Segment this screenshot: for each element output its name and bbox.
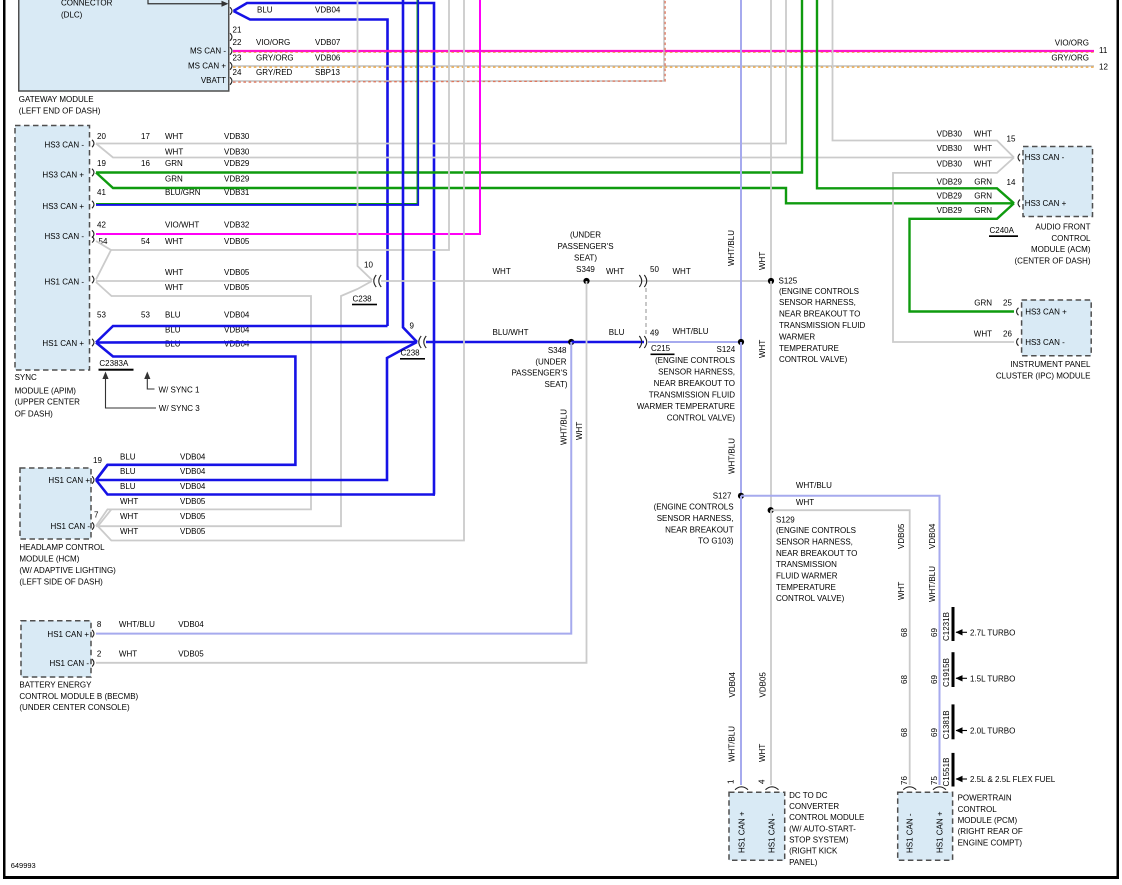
gateway pin 21 bracket bbox=[230, 33, 232, 41]
splice S125 bbox=[768, 278, 774, 284]
svg-text:WHT/BLU: WHT/BLU bbox=[119, 620, 155, 629]
svg-text:CONVERTER: CONVERTER bbox=[789, 802, 839, 811]
svg-text:WHT: WHT bbox=[897, 582, 906, 600]
SYNC pin 54 bracket bbox=[92, 237, 94, 243]
svg-text:VIO/ORG: VIO/ORG bbox=[1055, 38, 1089, 47]
wire GRN VDB29 from top to ACM bbox=[817, 0, 1014, 203]
splice S127 bbox=[738, 493, 744, 499]
svg-text:WHT: WHT bbox=[974, 330, 992, 339]
gateway pin 23 bracket bbox=[230, 62, 232, 70]
wire WHT VDB05 line A steep diagonal bbox=[96, 250, 111, 280]
svg-text:(ENGINE CONTROLS: (ENGINE CONTROLS bbox=[776, 526, 856, 535]
svg-text:HS3 CAN -: HS3 CAN - bbox=[44, 232, 84, 241]
gateway pin 24 bracket bbox=[230, 77, 232, 85]
HCM pin 7 bracket bbox=[92, 522, 94, 530]
gateway pin BLU bracket bbox=[230, 7, 232, 15]
svg-text:S127: S127 bbox=[713, 491, 732, 500]
svg-text:C1551B: C1551B bbox=[942, 758, 951, 787]
svg-text:BLU: BLU bbox=[120, 467, 136, 476]
connector C1551B bar bbox=[952, 753, 955, 787]
svg-text:25: 25 bbox=[1003, 299, 1012, 308]
wire WHT/BLU S127 to PCM pin 75 bbox=[741, 496, 940, 785]
svg-text:49: 49 bbox=[650, 329, 659, 338]
svg-text:(RIGHT REAR OF: (RIGHT REAR OF bbox=[958, 827, 1023, 836]
SYNC pin HS1 CAN - bracket bbox=[92, 276, 94, 284]
svg-text:VDB29: VDB29 bbox=[224, 159, 250, 168]
svg-text:BATTERY ENERGY: BATTERY ENERGY bbox=[19, 681, 92, 690]
svg-text:TRANSMISSION FLUID: TRANSMISSION FLUID bbox=[649, 391, 735, 400]
svg-text:WARMER: WARMER bbox=[779, 332, 815, 341]
svg-text:CONTROL MODULE B (BECMB): CONTROL MODULE B (BECMB) bbox=[19, 692, 138, 701]
svg-text:2: 2 bbox=[97, 649, 102, 658]
svg-text:S124: S124 bbox=[717, 345, 736, 354]
svg-text:(LEFT END OF DASH): (LEFT END OF DASH) bbox=[19, 107, 101, 116]
svg-text:WHT: WHT bbox=[165, 283, 183, 292]
svg-text:2.7L TURBO: 2.7L TURBO bbox=[970, 629, 1015, 638]
svg-text:STOP SYSTEM): STOP SYSTEM) bbox=[789, 836, 849, 845]
wire WHT S129 to DC-DC pin 4 bbox=[770, 510, 772, 785]
svg-text:20: 20 bbox=[97, 132, 106, 141]
svg-text:69: 69 bbox=[930, 728, 939, 737]
svg-text:(CENTER OF DASH): (CENTER OF DASH) bbox=[1015, 257, 1091, 266]
svg-text:VIO/ORG: VIO/ORG bbox=[256, 38, 290, 47]
svg-text:WHT: WHT bbox=[758, 340, 767, 358]
svg-text:(UNDER CENTER CONSOLE): (UNDER CENTER CONSOLE) bbox=[19, 703, 130, 712]
svg-text:(RIGHT KICK: (RIGHT KICK bbox=[789, 847, 838, 856]
svg-text:WHT: WHT bbox=[974, 144, 992, 153]
audio front control module (ACM) box bbox=[1023, 147, 1093, 217]
connector C1381B bar bbox=[952, 704, 955, 739]
wire GRN VDB29 sync line1 bbox=[96, 0, 802, 173]
svg-text:WHT: WHT bbox=[575, 422, 584, 440]
svg-text:19: 19 bbox=[97, 159, 106, 168]
svg-text:WHT: WHT bbox=[796, 498, 814, 507]
svg-text:TO G103): TO G103) bbox=[698, 537, 734, 546]
svg-text:DC TO DC: DC TO DC bbox=[789, 791, 828, 800]
svg-text:WHT/BLU: WHT/BLU bbox=[673, 327, 709, 336]
svg-text:HS1 CAN +: HS1 CAN + bbox=[42, 339, 84, 348]
svg-text:SEAT): SEAT) bbox=[574, 254, 597, 263]
svg-text:CONTROL VALVE): CONTROL VALVE) bbox=[779, 355, 848, 364]
SYNC pin 42 bracket bbox=[92, 230, 94, 238]
battery energy control module B (BECMB) box bbox=[21, 621, 91, 677]
svg-text:1: 1 bbox=[727, 779, 736, 784]
svg-text:GRN: GRN bbox=[165, 159, 183, 168]
svg-text:HS3 CAN +: HS3 CAN + bbox=[42, 202, 84, 211]
svg-text:WARMER TEMPERATURE: WARMER TEMPERATURE bbox=[637, 402, 735, 411]
instrument panel cluster (IPC) box bbox=[1022, 300, 1092, 356]
svg-text:HS3 CAN -: HS3 CAN - bbox=[1025, 153, 1065, 162]
svg-text:BLU: BLU bbox=[257, 6, 273, 15]
wire BLU/GRN VDB31 bbox=[96, 0, 418, 205]
SYNC module (APIM) box bbox=[15, 126, 90, 371]
svg-text:PASSENGER'S: PASSENGER'S bbox=[511, 369, 567, 378]
svg-text:11: 11 bbox=[1099, 46, 1108, 55]
svg-text:OF DASH): OF DASH) bbox=[15, 410, 54, 419]
svg-text:GRY/ORG: GRY/ORG bbox=[1051, 54, 1089, 63]
svg-text:WHT: WHT bbox=[758, 252, 767, 270]
wire BLU VDB04 hcm line3 diag bbox=[96, 480, 435, 495]
svg-text:1.5L TURBO: 1.5L TURBO bbox=[970, 675, 1015, 684]
svg-text:NEAR BREAKOUT: NEAR BREAKOUT bbox=[665, 525, 734, 534]
svg-text:HS1 CAN -: HS1 CAN - bbox=[44, 278, 84, 287]
wire WHT VDB05 line A (pin 54) bbox=[96, 0, 449, 250]
wire BLU S348 to C215-49 bbox=[571, 341, 644, 343]
wire WHT VDB05 hcm line3 bbox=[98, 0, 464, 541]
svg-text:GRN: GRN bbox=[974, 299, 992, 308]
SYNC pin HS1 CAN + bracket bbox=[92, 339, 94, 347]
svg-text:WHT: WHT bbox=[165, 148, 183, 157]
splice S349 bbox=[583, 278, 589, 284]
wire VIO/WHT VDB32 bbox=[96, 0, 480, 234]
wire WHT/BLU C215-49 to S124 bbox=[648, 341, 741, 343]
svg-text:VDB05: VDB05 bbox=[180, 497, 206, 506]
svg-text:19: 19 bbox=[93, 456, 102, 465]
svg-text:VDB29: VDB29 bbox=[224, 175, 250, 184]
IPC pin 26 bracket bbox=[1017, 338, 1019, 346]
svg-text:TEMPERATURE: TEMPERATURE bbox=[779, 344, 839, 353]
wire WHT/BLU VDB04 becmb to S348 bbox=[96, 342, 571, 634]
svg-text:VDB04: VDB04 bbox=[180, 467, 206, 476]
DC-DC pin 1 bracket bbox=[735, 787, 748, 790]
arrow C1231B bbox=[956, 631, 967, 633]
svg-text:INSTRUMENT PANEL: INSTRUMENT PANEL bbox=[1010, 360, 1091, 369]
svg-text:C1381B: C1381B bbox=[942, 710, 951, 739]
svg-text:WHT/BLU: WHT/BLU bbox=[728, 726, 737, 762]
svg-text:VDB05: VDB05 bbox=[897, 523, 906, 549]
svg-text:WHT: WHT bbox=[165, 237, 183, 246]
svg-text:WHT: WHT bbox=[120, 527, 138, 536]
svg-text:CONTROL: CONTROL bbox=[1051, 234, 1091, 243]
ACM pin 14 bracket bbox=[1018, 200, 1020, 208]
wire VIO/ORG VDB07 bbox=[233, 50, 1094, 52]
svg-text:HS1 CAN -: HS1 CAN - bbox=[906, 813, 915, 853]
svg-text:VDB04: VDB04 bbox=[178, 620, 204, 629]
svg-text:MS CAN +: MS CAN + bbox=[188, 62, 226, 71]
wire WHT VDB30 sync line2 to ACM bbox=[96, 144, 1014, 158]
wire WHT VDB05 line B to C238 bbox=[96, 280, 372, 282]
svg-text:(DLC): (DLC) bbox=[61, 11, 83, 20]
arrow C1915B bbox=[956, 677, 967, 679]
SYNC pin 20 bracket bbox=[92, 140, 94, 148]
svg-text:S348: S348 bbox=[548, 346, 567, 355]
svg-text:WHT: WHT bbox=[119, 649, 137, 658]
connector C1915B bar bbox=[952, 652, 955, 687]
inline connector C215 pin 49 bbox=[639, 336, 646, 348]
svg-text:HS3 CAN +: HS3 CAN + bbox=[1025, 199, 1067, 208]
svg-text:24: 24 bbox=[233, 68, 242, 77]
svg-text:HS3 CAN +: HS3 CAN + bbox=[42, 171, 84, 180]
wire WHT VDB05 via C238-10 branch bbox=[96, 281, 372, 526]
svg-text:41: 41 bbox=[97, 188, 106, 197]
wire BLU/WHT C238-9 to S348 bbox=[426, 341, 571, 343]
svg-text:S129: S129 bbox=[776, 515, 795, 524]
wire WHT/BLU vertical top to S124 bbox=[740, 0, 742, 342]
DLC internal arrow wire bbox=[148, 0, 223, 4]
svg-text:WHT: WHT bbox=[165, 268, 183, 277]
C215 underline bbox=[651, 354, 675, 356]
svg-text:VDB30: VDB30 bbox=[937, 144, 963, 153]
svg-text:WHT: WHT bbox=[120, 512, 138, 521]
svg-text:53: 53 bbox=[97, 311, 106, 320]
svg-text:HS1 CAN -: HS1 CAN - bbox=[49, 659, 89, 668]
svg-text:VDB05: VDB05 bbox=[180, 512, 206, 521]
svg-text:76: 76 bbox=[900, 776, 909, 785]
ACM pin 15 bracket bbox=[1018, 154, 1020, 162]
svg-text:(ENGINE CONTROLS: (ENGINE CONTROLS bbox=[779, 287, 859, 296]
svg-text:VDB04: VDB04 bbox=[224, 339, 250, 348]
wire BLU VDB04 gateway fork lower bbox=[234, 11, 388, 326]
svg-text:NEAR BREAKOUT TO: NEAR BREAKOUT TO bbox=[654, 379, 735, 388]
svg-text:TRANSMISSION FLUID: TRANSMISSION FLUID bbox=[779, 321, 865, 330]
svg-text:GRY/ORG: GRY/ORG bbox=[256, 54, 294, 63]
svg-text:WHT/BLU: WHT/BLU bbox=[796, 481, 832, 490]
svg-text:2.5L & 2.5L FLEX FUEL: 2.5L & 2.5L FLEX FUEL bbox=[970, 775, 1056, 784]
svg-text:VDB05: VDB05 bbox=[178, 649, 204, 658]
svg-text:42: 42 bbox=[97, 221, 106, 230]
svg-text:(W/ ADAPTIVE LIGHTING): (W/ ADAPTIVE LIGHTING) bbox=[19, 566, 116, 575]
svg-text:PANEL): PANEL) bbox=[789, 858, 818, 867]
svg-text:S125: S125 bbox=[779, 277, 798, 286]
C240A underline bbox=[989, 235, 1018, 237]
svg-text:10: 10 bbox=[364, 261, 373, 270]
svg-text:POWERTRAIN: POWERTRAIN bbox=[958, 794, 1012, 803]
PCM pin 75 bracket bbox=[933, 787, 946, 790]
svg-text:ENGINE COMPT): ENGINE COMPT) bbox=[958, 839, 1023, 848]
arrow C1551B bbox=[956, 778, 967, 780]
wire BLU VDB04 hcm line1 bbox=[96, 465, 108, 480]
wire WHT VDB30 sync line1 bbox=[96, 0, 786, 144]
svg-text:(W/ AUTO-START-: (W/ AUTO-START- bbox=[789, 824, 856, 833]
svg-text:HS1 CAN +: HS1 CAN + bbox=[47, 630, 89, 639]
svg-text:WHT: WHT bbox=[606, 267, 624, 276]
wire BLU C238-9 branch down to HCM bbox=[96, 342, 417, 480]
svg-text:C1231B: C1231B bbox=[942, 612, 951, 641]
wire GRY/RED SBP13 (gray base) bbox=[233, 0, 664, 81]
svg-text:VDB04: VDB04 bbox=[180, 453, 206, 462]
C215 connector dashed link bbox=[645, 288, 647, 336]
svg-text:MS CAN -: MS CAN - bbox=[190, 47, 226, 56]
svg-text:(ENGINE CONTROLS: (ENGINE CONTROLS bbox=[655, 356, 735, 365]
svg-text:VDB07: VDB07 bbox=[315, 38, 341, 47]
svg-text:C215: C215 bbox=[651, 344, 671, 353]
page border left bbox=[3, 0, 6, 878]
wire WHT S129 to PCM pin 76 bbox=[771, 510, 910, 785]
svg-text:BLU/GRN: BLU/GRN bbox=[165, 188, 201, 197]
wire WHT VDB05 hcm line1 diag bbox=[98, 509, 111, 526]
svg-text:649993: 649993 bbox=[11, 861, 36, 870]
svg-text:SYNC: SYNC bbox=[15, 373, 37, 382]
svg-text:VDB06: VDB06 bbox=[315, 54, 341, 63]
svg-text:4: 4 bbox=[758, 779, 767, 784]
wire WHT vertical from top to C238-10 bbox=[358, 0, 373, 280]
HCM pin 19 bracket bbox=[92, 476, 94, 484]
svg-text:HS1 CAN +: HS1 CAN + bbox=[48, 476, 90, 485]
wire WHT trunk C238-10 to S125 bbox=[381, 280, 771, 282]
svg-text:BLU: BLU bbox=[120, 453, 136, 462]
svg-text:53: 53 bbox=[141, 311, 150, 320]
svg-text:VDB29: VDB29 bbox=[937, 206, 963, 215]
svg-text:TRANSMISSION: TRANSMISSION bbox=[776, 560, 837, 569]
inline connector C238 pin 9 bbox=[419, 336, 426, 348]
svg-text:23: 23 bbox=[233, 54, 242, 63]
svg-text:GRN: GRN bbox=[974, 206, 992, 215]
svg-text:C240A: C240A bbox=[990, 226, 1015, 235]
svg-text:CONNECTOR: CONNECTOR bbox=[61, 0, 113, 8]
powertrain control module (PCM) box bbox=[898, 792, 953, 860]
svg-text:NEAR BREAKOUT TO: NEAR BREAKOUT TO bbox=[776, 549, 857, 558]
svg-text:68: 68 bbox=[900, 728, 909, 737]
svg-text:NEAR BREAKOUT TO: NEAR BREAKOUT TO bbox=[779, 310, 860, 319]
C238b underline bbox=[400, 358, 425, 360]
svg-text:VDB04: VDB04 bbox=[928, 523, 937, 549]
svg-text:VDB29: VDB29 bbox=[937, 191, 963, 200]
svg-text:WHT: WHT bbox=[758, 744, 767, 762]
svg-text:VDB32: VDB32 bbox=[224, 221, 250, 230]
svg-text:VDB29: VDB29 bbox=[937, 177, 963, 186]
svg-text:SENSOR HARNESS,: SENSOR HARNESS, bbox=[779, 298, 856, 307]
wire WHT VDB05 becmb to S349 bbox=[96, 281, 587, 663]
wire WHT VDB30 from top to ACM bbox=[833, 0, 1015, 158]
svg-text:54: 54 bbox=[141, 237, 150, 246]
svg-text:BLU: BLU bbox=[165, 311, 181, 320]
svg-text:12: 12 bbox=[1099, 62, 1108, 71]
svg-text:WHT: WHT bbox=[493, 267, 511, 276]
svg-text:GATEWAY MODULE: GATEWAY MODULE bbox=[19, 95, 94, 104]
IPC pin 25 bracket bbox=[1017, 308, 1019, 316]
svg-text:W/ SYNC 3: W/ SYNC 3 bbox=[159, 404, 200, 413]
arrow C1381B bbox=[956, 730, 967, 732]
svg-text:14: 14 bbox=[1007, 178, 1016, 187]
svg-text:GRY/RED: GRY/RED bbox=[256, 68, 293, 77]
wire BLU VDB04 sync line1 bbox=[96, 326, 388, 343]
svg-text:VDB30: VDB30 bbox=[224, 148, 250, 157]
svg-text:75: 75 bbox=[930, 776, 939, 785]
svg-text:16: 16 bbox=[141, 159, 150, 168]
svg-text:VDB05: VDB05 bbox=[180, 527, 206, 536]
svg-text:SENSOR HARNESS,: SENSOR HARNESS, bbox=[658, 368, 735, 377]
svg-text:HEADLAMP CONTROL: HEADLAMP CONTROL bbox=[19, 543, 105, 552]
W/ SYNC 1 arrow bbox=[147, 375, 154, 389]
wire WHT/BLU S124 to S127 bbox=[740, 342, 742, 496]
svg-text:VDB05: VDB05 bbox=[224, 283, 250, 292]
svg-text:HS1 CAN +: HS1 CAN + bbox=[936, 811, 945, 853]
svg-text:CONTROL MODULE: CONTROL MODULE bbox=[789, 813, 864, 822]
svg-text:CONTROL: CONTROL bbox=[958, 805, 998, 814]
svg-text:VIO/WHT: VIO/WHT bbox=[165, 221, 199, 230]
splice S124 bbox=[738, 339, 744, 345]
splice S129 bbox=[768, 507, 774, 513]
svg-text:(UNDER: (UNDER bbox=[535, 358, 566, 367]
svg-text:(LEFT SIDE OF DASH): (LEFT SIDE OF DASH) bbox=[19, 578, 103, 587]
svg-text:WHT: WHT bbox=[165, 132, 183, 141]
svg-text:W/ SYNC 1: W/ SYNC 1 bbox=[159, 385, 200, 394]
svg-text:WHT/BLU: WHT/BLU bbox=[727, 230, 736, 266]
svg-text:WHT/BLU: WHT/BLU bbox=[728, 438, 737, 474]
svg-text:22: 22 bbox=[233, 38, 242, 47]
wire WHT vertical top to S125 bbox=[770, 0, 772, 281]
svg-text:TEMPERATURE: TEMPERATURE bbox=[776, 583, 836, 592]
inline connector C215 pin 50 bbox=[639, 275, 646, 287]
wire BLU VDB04 sync line2 to C238-9 bbox=[96, 341, 417, 344]
svg-text:26: 26 bbox=[1003, 330, 1012, 339]
svg-text:FLUID WARMER: FLUID WARMER bbox=[776, 571, 838, 580]
svg-text:MODULE (PCM): MODULE (PCM) bbox=[958, 816, 1018, 825]
svg-text:8: 8 bbox=[97, 620, 102, 629]
svg-text:HS1 CAN -: HS1 CAN - bbox=[768, 813, 777, 853]
svg-text:HS3 CAN -: HS3 CAN - bbox=[44, 141, 84, 150]
wire GRN VDB29 ACM line3 to IPC bbox=[910, 203, 1015, 311]
wire GRY/ORG VDB06 (gray base) bbox=[233, 65, 1094, 67]
svg-text:68: 68 bbox=[900, 628, 909, 637]
headlamp control module (HCM) box bbox=[20, 468, 91, 539]
PCM pin 76 bracket bbox=[903, 787, 916, 790]
svg-text:HS1 CAN +: HS1 CAN + bbox=[738, 811, 747, 853]
svg-text:AUDIO FRONT: AUDIO FRONT bbox=[1035, 223, 1090, 232]
svg-text:VDB04: VDB04 bbox=[180, 482, 206, 491]
wire WHT VDB05 line C bbox=[96, 282, 311, 526]
svg-text:VDB04: VDB04 bbox=[224, 311, 250, 320]
C238a underline bbox=[352, 304, 377, 306]
svg-text:C1915B: C1915B bbox=[942, 658, 951, 687]
svg-text:21: 21 bbox=[233, 26, 242, 35]
svg-text:PASSENGER'S: PASSENGER'S bbox=[557, 242, 613, 251]
svg-text:15: 15 bbox=[1007, 135, 1016, 144]
svg-text:MODULE (APIM): MODULE (APIM) bbox=[15, 387, 77, 396]
svg-text:C238: C238 bbox=[353, 294, 373, 303]
svg-text:69: 69 bbox=[930, 675, 939, 684]
svg-text:VDB05: VDB05 bbox=[759, 672, 768, 698]
svg-text:SENSOR HARNESS,: SENSOR HARNESS, bbox=[776, 537, 853, 546]
svg-text:WHT: WHT bbox=[120, 497, 138, 506]
svg-text:VBATT: VBATT bbox=[201, 76, 226, 85]
svg-text:7: 7 bbox=[94, 511, 99, 520]
svg-text:HS3 CAN -: HS3 CAN - bbox=[1025, 338, 1065, 347]
svg-text:BLU: BLU bbox=[120, 482, 136, 491]
page border right bbox=[1117, 0, 1120, 879]
svg-text:GRN: GRN bbox=[974, 191, 992, 200]
svg-text:CONTROL VALVE): CONTROL VALVE) bbox=[667, 414, 736, 423]
svg-text:WHT: WHT bbox=[673, 267, 691, 276]
svg-text:2.0L TURBO: 2.0L TURBO bbox=[970, 727, 1015, 736]
svg-text:S349: S349 bbox=[576, 265, 595, 274]
wire WHT VDB30 ACM line3 to IPC bbox=[893, 158, 1014, 343]
svg-text:VDB30: VDB30 bbox=[224, 132, 250, 141]
svg-text:WHT: WHT bbox=[974, 129, 992, 138]
C2383A underline bbox=[99, 369, 134, 371]
BECMB pin 8 bracket bbox=[92, 630, 94, 638]
svg-text:SEAT): SEAT) bbox=[545, 380, 568, 389]
svg-text:69: 69 bbox=[930, 628, 939, 637]
wire BLU vertical from top to C238-9 bbox=[403, 0, 417, 342]
wire BLU VDB04 sync line3 bbox=[96, 343, 295, 481]
svg-text:SENSOR HARNESS,: SENSOR HARNESS, bbox=[657, 514, 734, 523]
svg-text:C2383A: C2383A bbox=[99, 359, 129, 368]
wire WHT S125 to S129 bbox=[770, 281, 772, 510]
svg-text:WHT/BLU: WHT/BLU bbox=[560, 409, 569, 445]
svg-text:HS3 CAN +: HS3 CAN + bbox=[1025, 308, 1067, 317]
splice S348 bbox=[568, 339, 574, 345]
svg-text:VDB31: VDB31 bbox=[224, 188, 250, 197]
svg-text:BLU/WHT: BLU/WHT bbox=[493, 328, 529, 337]
svg-text:VDB30: VDB30 bbox=[937, 160, 963, 169]
svg-text:C238: C238 bbox=[401, 349, 421, 358]
svg-text:GRN: GRN bbox=[165, 175, 183, 184]
svg-text:SBP13: SBP13 bbox=[315, 68, 340, 77]
svg-text:VDB05: VDB05 bbox=[224, 268, 250, 277]
svg-text:9: 9 bbox=[410, 322, 415, 331]
svg-text:(UPPER CENTER: (UPPER CENTER bbox=[15, 398, 81, 407]
